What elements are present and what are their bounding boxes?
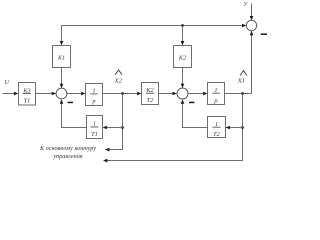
node junction to 1/T1 (121, 126, 124, 129)
wire top horizontal from corner to summer S3 (62, 24, 247, 28)
wire K1 down into S1 (60, 68, 64, 89)
wire S2 to integrator 1/p second (188, 92, 208, 96)
node junction to 1/T2 (241, 126, 244, 129)
svg-text:Т2: Т2 (213, 131, 221, 138)
summer S3 (246, 20, 256, 30)
block integrator 1/p first (86, 84, 103, 106)
svg-text:К2: К2 (178, 55, 187, 62)
block 1/T1 (87, 116, 103, 139)
minus sign at S1 (68, 102, 73, 104)
wire K3/T1 to S1 (36, 92, 57, 96)
svg-text:К основному контуру: К основному контуру (39, 145, 96, 152)
wire X2 down the feedback column (122, 94, 124, 150)
svg-text:р: р (213, 97, 217, 104)
node label to main control loop (39, 145, 96, 160)
svg-text:1: 1 (93, 120, 96, 127)
node X1 estimate label (237, 71, 247, 85)
block K1 (53, 46, 71, 68)
summer S1 (56, 88, 67, 99)
wire into 1/T2 from right (226, 126, 243, 130)
svg-text:Х2: Х2 (113, 77, 122, 84)
block K2 (174, 46, 192, 68)
wire S1 to integrator 1/p (67, 92, 86, 96)
wire branch down into K2 (181, 26, 185, 46)
wire output X1 to corner (225, 93, 252, 95)
wire K2/T2 to S2 (159, 92, 177, 96)
wire X2 tap to main control loop (105, 148, 123, 152)
minus sign at S3 (261, 33, 267, 35)
svg-text:Т1: Т1 (24, 98, 31, 105)
wire 1/T1 output up into S1 (60, 99, 87, 128)
summer S2 (177, 88, 188, 99)
svg-text:U: U (5, 80, 10, 86)
wire 1/T2 output up into S2 (181, 99, 208, 128)
wire X1 tap to main control loop (103, 159, 243, 163)
block integrator 1/p second (208, 83, 225, 105)
wire into 1/T1 from right (103, 126, 123, 130)
wire U input into K3/T1 (3, 92, 19, 96)
svg-text:Х1: Х1 (237, 77, 245, 84)
svg-text:управления: управления (52, 153, 82, 160)
node junction on top wire (181, 24, 184, 27)
node X2 estimate junction (121, 92, 124, 95)
node X1 estimate junction (241, 92, 244, 95)
svg-text:Т1: Т1 (91, 131, 98, 138)
svg-text:Т2: Т2 (147, 97, 155, 104)
wire Y input down into S3 (250, 4, 254, 21)
block K2/T2 (142, 83, 159, 105)
block 1/T2 (208, 117, 226, 138)
minus sign at S2 (189, 102, 194, 104)
svg-text:р: р (91, 98, 95, 105)
wire corner down into K1 (60, 25, 64, 45)
block K3/T1 (19, 83, 36, 106)
node X2 estimate label (113, 70, 122, 84)
wire 1/p output to K2/T2 (103, 92, 142, 96)
wire X1 down to bottom output (242, 94, 244, 161)
svg-text:К1: К1 (57, 55, 65, 62)
wire K2 down into S2 (181, 68, 185, 89)
wire feedback up from output into S3 (250, 31, 254, 94)
